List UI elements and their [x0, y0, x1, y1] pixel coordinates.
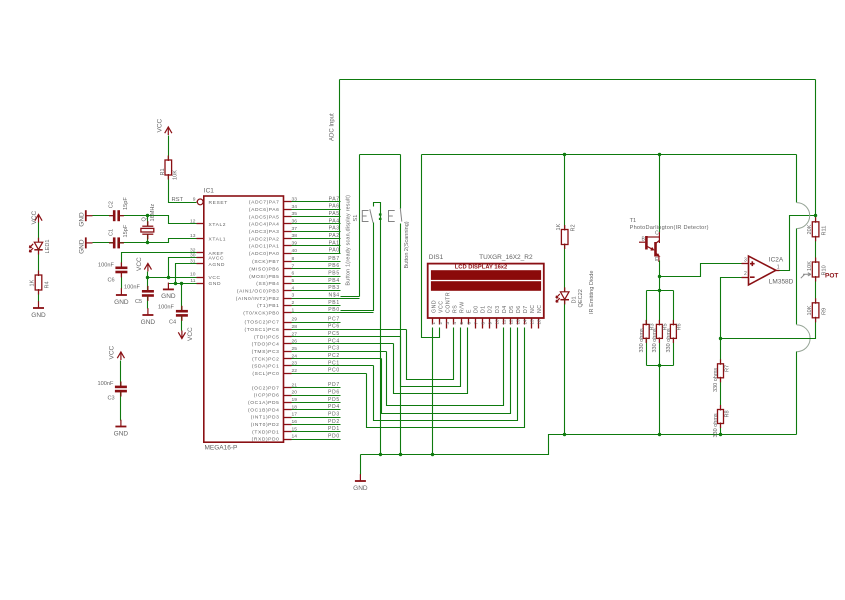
svg-text:(ADC6)PA6: (ADC6)PA6 [249, 207, 280, 213]
resistor R10 potentiometer top pin [815, 258, 817, 264]
wire net PB0 [292, 312, 374, 314]
wire R9 to feedback [721, 318, 816, 339]
svg-text:20: 20 [292, 390, 298, 396]
svg-text:Button 2(Scanning): Button 2(Scanning) [404, 221, 410, 268]
pin stub PD7 pin 21 [284, 387, 292, 389]
svg-text:PB1: PB1 [328, 300, 340, 306]
svg-text:T1: T1 [630, 218, 637, 224]
capacitor C2 right pin [119, 215, 124, 217]
junction parallel top [658, 289, 661, 292]
svg-text:10: 10 [190, 272, 196, 278]
pin stub PD3 pin 17 [284, 417, 292, 419]
wire C6 to GND [121, 273, 123, 289]
wire GND row to pin11 [169, 283, 197, 285]
D1 top pin [564, 287, 566, 291]
pin stub PA5 pin 35 [284, 216, 292, 218]
wire net PD2 [292, 424, 341, 426]
svg-text:1K: 1K [30, 279, 36, 286]
svg-text:16MHz: 16MHz [150, 204, 156, 222]
wire ADC input rail [340, 79, 816, 81]
wire R6 top [673, 291, 675, 325]
wire AREF to C6 [122, 253, 197, 268]
svg-text:PB7: PB7 [328, 256, 340, 262]
resistor R6 bottom pin [672, 337, 674, 343]
pin stub LCD pin 2 VCC [439, 319, 441, 325]
resistor R9 top pin [815, 298, 817, 304]
svg-text:QEC22: QEC22 [578, 289, 584, 307]
wire C3 to GND [120, 392, 122, 421]
resistor R2 bottom pin [564, 244, 566, 250]
svg-text:D4: D4 [502, 305, 508, 313]
svg-text:(OC1A)PD5: (OC1A)PD5 [248, 400, 280, 406]
svg-text:9: 9 [193, 197, 196, 203]
svg-text:R9: R9 [822, 308, 828, 315]
svg-text:D7: D7 [523, 305, 529, 313]
svg-text:11: 11 [190, 278, 195, 284]
svg-text:10: 10 [494, 319, 499, 325]
pin stub PB0 pin 1 [284, 312, 292, 314]
svg-text:(TOSC2)PC7: (TOSC2)PC7 [245, 320, 280, 326]
pin stub opamp minus [742, 277, 749, 279]
svg-text:19: 19 [292, 397, 298, 403]
capacitor C3 top pin [120, 382, 122, 387]
resistor R10 potentiometer bottom pin [815, 276, 817, 282]
svg-text:C4: C4 [169, 320, 176, 326]
wire net PB1 [292, 305, 341, 307]
wire minus input down [721, 278, 742, 364]
wire crystal bottom stub [147, 235, 149, 243]
capacitor C5 [142, 291, 154, 295]
wire D1 to bus [564, 300, 566, 435]
junction feedback [719, 337, 722, 340]
svg-text:R2: R2 [571, 224, 577, 231]
wire down to C4 [181, 284, 183, 312]
wire parallel bottom [647, 365, 674, 367]
pin stub LCD pin 7 D0 [475, 319, 477, 329]
svg-text:15: 15 [530, 319, 535, 325]
svg-text:D1: D1 [572, 296, 578, 303]
svg-text:LCD DISPLAY 16x2: LCD DISPLAY 16x2 [455, 265, 508, 271]
crystal Q top pin [147, 221, 149, 226]
wire net PB3 [292, 290, 341, 292]
wire net PB4 [292, 283, 341, 285]
capacitor C2 left pin [109, 215, 114, 217]
pin stub PD2 pin 16 [284, 424, 292, 426]
ground at C1 [86, 237, 93, 248]
svg-text:9: 9 [487, 322, 492, 325]
svg-text:R8: R8 [725, 410, 731, 417]
supply VCC arrow at pin10 [144, 263, 151, 271]
wire net PB6 [292, 268, 341, 270]
pin stub PC3 pin 25 [284, 351, 292, 353]
pin stub PB3 pin 4 [284, 290, 292, 292]
svg-text:PhotoDarlington(IR Detector): PhotoDarlington(IR Detector) [630, 225, 709, 231]
svg-text:TUXGR_16X2_R2: TUXGR_16X2_R2 [479, 254, 533, 261]
wire LCD staircase via x=366.1 [367, 328, 525, 428]
svg-text:2: 2 [744, 271, 747, 277]
LED D1 QEC22 IR emitting diode [556, 292, 569, 302]
svg-text:(ADC3)PA3: (ADC3)PA3 [249, 229, 280, 235]
wire C2 to XTAL2 [119, 216, 197, 224]
svg-text:N$4: N$4 [329, 292, 340, 298]
wire down to C5 [147, 278, 149, 292]
resistor R5 [656, 324, 662, 338]
pin stub PB6 pin 7 [284, 268, 292, 270]
wire VCC rail to T1 collector [659, 155, 661, 233]
svg-text:(AIN1/OC0)PB3: (AIN1/OC0)PB3 [237, 288, 280, 294]
pin stub PA2 pin 38 [284, 238, 292, 240]
wire S2 top from VCC rail [400, 155, 402, 209]
resistor R4 top pin [38, 271, 40, 277]
crystal Q 16MHz [141, 226, 154, 234]
svg-text:(INT1)PD3: (INT1)PD3 [251, 415, 280, 421]
wire R11 to R10 [815, 237, 817, 263]
junction R8 on bus [719, 433, 722, 436]
svg-text:12: 12 [190, 219, 196, 225]
svg-text:4: 4 [292, 285, 295, 291]
svg-text:(TDO)PC4: (TDO)PC4 [252, 342, 280, 348]
resistor R1 [165, 160, 172, 175]
svg-text:(T0/XCK)PB0: (T0/XCK)PB0 [243, 310, 279, 316]
wire GND to C2 [93, 215, 115, 217]
wire VCC to LED1 [38, 223, 40, 243]
svg-text:Button 1(ready scan,display re: Button 1(ready scan,display result) [346, 195, 352, 286]
capacitor C1 right pin [119, 242, 124, 244]
pin stub LCD pin 3 CONTR [446, 319, 448, 329]
pin stub PD6 pin 20 [284, 395, 292, 397]
wire emitter junction to plus input [660, 264, 742, 277]
svg-text:6: 6 [292, 271, 295, 277]
svg-text:C3: C3 [108, 396, 115, 402]
pin stub PD4 pin 18 [284, 409, 292, 411]
wire net PD5 [292, 402, 341, 404]
svg-text:GND: GND [141, 319, 156, 326]
svg-text:(TCK)PC2: (TCK)PC2 [252, 356, 279, 362]
svg-text:4: 4 [452, 322, 457, 325]
svg-text:VCC: VCC [187, 327, 194, 341]
pin stub LCD pin 5 R/W [461, 319, 463, 325]
svg-text:38: 38 [292, 233, 298, 239]
wire net PC3 [292, 351, 387, 353]
svg-text:R6: R6 [677, 323, 683, 330]
wire net PC0 [292, 373, 367, 375]
svg-text:100nF: 100nF [98, 262, 114, 268]
resistor R9 bottom pin [815, 317, 817, 323]
capacitor C3 [115, 387, 127, 391]
resistor R3 bottom pin [645, 337, 647, 343]
svg-text:1: 1 [777, 264, 780, 270]
pin stub LCD pin 4 RS [453, 319, 455, 325]
svg-text:XTAL2: XTAL2 [209, 222, 227, 228]
pin stub PC4 pin 26 [284, 343, 292, 345]
ground at C2 [86, 210, 93, 221]
wire S1 to N$4 net [341, 296, 360, 298]
resistor R5 bottom pin [658, 337, 660, 343]
resistor R10 potentiometer [812, 262, 819, 277]
pin stub RESET pin 9 [197, 201, 198, 203]
op-amp IC2A LM358D [749, 256, 776, 285]
wire S1 lever to PB0 [341, 223, 374, 311]
svg-text:(ADC1)PA1: (ADC1)PA1 [249, 244, 280, 250]
svg-text:PD2: PD2 [328, 419, 340, 425]
svg-text:PA1: PA1 [329, 240, 340, 246]
svg-text:17: 17 [292, 412, 298, 418]
svg-text:PC5: PC5 [328, 331, 340, 337]
capacitor C4 bottom pin [181, 315, 183, 320]
svg-text:14: 14 [292, 434, 298, 440]
wire R7 to R8 [720, 378, 722, 410]
svg-text:2: 2 [438, 322, 443, 325]
svg-text:330 ohms: 330 ohms [666, 328, 672, 352]
resistor R5 top pin [658, 320, 660, 326]
svg-text:(SS)PB4: (SS)PB4 [256, 281, 279, 287]
svg-text:PA5: PA5 [329, 211, 340, 217]
svg-text:(MOSI)PB5: (MOSI)PB5 [249, 274, 279, 280]
svg-text:PC6: PC6 [328, 324, 340, 330]
op-amp n/a IC1 body MEGA16-P [204, 196, 284, 442]
svg-text:23: 23 [292, 361, 298, 367]
svg-text:VCC: VCC [31, 210, 38, 224]
wire net PA0 [292, 253, 341, 255]
svg-text:R4: R4 [45, 281, 51, 288]
svg-text:GND: GND [432, 300, 438, 313]
svg-text:10K: 10K [807, 261, 813, 271]
svg-text:PD6: PD6 [328, 389, 340, 395]
svg-text:GND: GND [209, 281, 222, 287]
wire hop arc 2 [797, 325, 810, 352]
wire net PD7 [292, 387, 341, 389]
junction output R11 top rail [814, 214, 817, 217]
ground at pin11 row [163, 283, 174, 290]
transistor T1 photodarlington [639, 232, 659, 262]
svg-text:(ICP)PD6: (ICP)PD6 [254, 393, 280, 399]
svg-text:5: 5 [292, 278, 295, 284]
wire net PC2 [292, 358, 382, 360]
svg-text:(ADC5)PA5: (ADC5)PA5 [249, 214, 280, 220]
pin stub PA3 pin 37 [284, 231, 292, 233]
pin stub PA0 pin 40 [284, 253, 292, 255]
resistor R9 [812, 303, 819, 318]
wire LCD staircase via x=393.5 [394, 328, 468, 394]
ground below C6 [116, 288, 127, 295]
svg-text:C6: C6 [108, 278, 115, 284]
pin stub N$4 pin 3 [284, 298, 292, 300]
pin stub PC7 pin 29 [284, 322, 292, 324]
wire LCD staircase via x=400.9 [401, 328, 461, 387]
svg-text:VCC: VCC [136, 257, 143, 271]
svg-text:15pF: 15pF [123, 197, 129, 210]
pin stub XTAL1 pin 13 [197, 238, 204, 240]
svg-text:VCC: VCC [439, 300, 445, 313]
svg-text:15: 15 [292, 426, 298, 432]
wire net PD6 [292, 395, 341, 397]
resistor R3 top pin [645, 320, 647, 326]
capacitor C4 top pin [181, 306, 183, 311]
pin stub AVCC pin 30 [197, 257, 204, 259]
wire LCD staircase via x=386.3 [387, 328, 504, 406]
svg-text:R1: R1 [160, 168, 166, 175]
wire R5 bottom [659, 339, 661, 366]
svg-text:C: C [655, 231, 659, 237]
capacitor C1 [114, 237, 119, 248]
svg-text:(ADC7)PA7: (ADC7)PA7 [249, 200, 280, 206]
ground below C5 [142, 308, 153, 315]
pin stub LCD pin 9 D2 [489, 319, 491, 329]
junction crystal bottom [146, 241, 149, 244]
wire ADC input drop to PA0 [339, 80, 341, 254]
resistor R6 [670, 324, 676, 338]
svg-text:POT: POT [825, 273, 838, 280]
wire net PC1 [292, 365, 374, 367]
pin stub PC0 pin 22 [284, 373, 292, 375]
capacitor C6 top pin [120, 262, 122, 267]
svg-text:27: 27 [292, 331, 298, 337]
junction emitter to opamp [658, 275, 661, 278]
resistor R7 [718, 364, 724, 378]
wire net PD4 [292, 409, 341, 411]
wire net PA3 [292, 231, 341, 233]
svg-text:(OC1B)PD4: (OC1B)PD4 [248, 407, 280, 413]
resistor R4 [35, 275, 42, 290]
resistor R6 top pin [672, 320, 674, 326]
wire GND bus lower [361, 435, 797, 455]
pin stub GND pin 11 [197, 283, 204, 285]
pin stub AGND pin 31 [197, 263, 204, 265]
wire R10 to R9 [815, 278, 817, 303]
LED D1 LED1 [29, 242, 42, 252]
capacitor C5 bottom pin [147, 296, 149, 301]
wire R5 through [659, 291, 661, 325]
pin stub PB7 pin 8 [284, 261, 292, 263]
capacitor C3 bottom pin [120, 391, 122, 396]
svg-text:15pF: 15pF [123, 224, 129, 237]
resistor R4 bottom pin [38, 289, 40, 295]
svg-text:(AIN0/INT2)PB2: (AIN0/INT2)PB2 [236, 296, 280, 302]
wire S2 lever to bus [400, 224, 402, 455]
svg-text:40: 40 [292, 248, 298, 254]
wire LCD staircase via x=381.1 [382, 328, 511, 414]
pin stub PC6 pin 28 [284, 329, 292, 331]
wire net PA5 [292, 216, 341, 218]
svg-text:PC1: PC1 [328, 360, 340, 366]
svg-text:(ADC2)PA2: (ADC2)PA2 [249, 236, 280, 242]
pin stub LCD pin 15 NC [531, 319, 533, 329]
pin stub XTAL2 pin 12 [197, 223, 204, 225]
capacitor C2 [114, 210, 119, 221]
junction T1 on VCC rail [658, 153, 661, 156]
svg-text:37: 37 [292, 226, 298, 232]
svg-text:S1: S1 [353, 215, 359, 222]
svg-text:8: 8 [480, 322, 485, 325]
pin stub LCD pin 16 NC [538, 319, 540, 329]
svg-text:PA0: PA0 [329, 248, 340, 254]
crystal Q bottom pin [147, 235, 149, 240]
junction LCD pin1 on bus [431, 453, 434, 456]
junction crystal top [146, 214, 149, 217]
D1 bottom pin [564, 300, 566, 305]
svg-text:GND: GND [114, 430, 129, 437]
pin stub PD1 pin 15 [284, 431, 292, 433]
svg-text:(SDA)PC1: (SDA)PC1 [252, 364, 280, 370]
svg-text:PD3: PD3 [328, 411, 340, 417]
svg-text:PB0: PB0 [328, 307, 340, 313]
svg-text:PD7: PD7 [328, 382, 340, 388]
wire VCC to C3 [120, 361, 122, 387]
svg-text:D2: D2 [488, 305, 494, 313]
capacitor C1 left pin [109, 242, 114, 244]
svg-text:7: 7 [473, 322, 478, 325]
svg-text:RESET: RESET [209, 200, 228, 206]
wire VCC to R1 [168, 136, 170, 161]
svg-text:VCC: VCC [209, 275, 221, 281]
svg-text:RST: RST [172, 197, 184, 203]
svg-text:1K: 1K [556, 223, 562, 230]
svg-text:IC2A: IC2A [769, 257, 784, 264]
pin stub PA4 pin 36 [284, 223, 292, 225]
svg-text:100nF: 100nF [124, 285, 140, 291]
pin stub LCD pin 8 D1 [482, 319, 484, 329]
svg-text:C2: C2 [109, 201, 115, 208]
supply VCC arrow top-left [35, 215, 42, 223]
wire net PC7 [292, 322, 341, 324]
pin stub opamp out [776, 270, 780, 272]
switch S1 [362, 209, 373, 222]
svg-text:PA2: PA2 [329, 233, 340, 239]
junction AVCC on VCC row [167, 276, 170, 279]
svg-text:22: 22 [292, 368, 298, 374]
svg-text:33: 33 [292, 197, 298, 203]
svg-text:26: 26 [292, 339, 298, 345]
resistor R1 bottom pin [167, 174, 169, 180]
svg-text:20K: 20K [807, 224, 813, 234]
svg-text:28: 28 [292, 324, 298, 330]
svg-text:21: 21 [292, 382, 298, 388]
capacitor C6 bottom pin [120, 272, 122, 277]
svg-text:3: 3 [292, 293, 295, 299]
svg-text:PA7: PA7 [329, 196, 340, 202]
svg-text:(INT0)PD2: (INT0)PD2 [251, 422, 280, 428]
svg-text:R11: R11 [822, 226, 828, 236]
svg-text:AVCC: AVCC [209, 256, 225, 262]
resistor R3 [643, 324, 649, 338]
wire VCC rail [422, 154, 797, 156]
svg-text:10K: 10K [807, 305, 813, 315]
wire net PD3 [292, 417, 341, 419]
svg-text:PB4: PB4 [328, 278, 340, 284]
resistor R11 bottom pin [815, 236, 817, 242]
svg-text:13: 13 [515, 319, 520, 325]
svg-text:DIS1: DIS1 [429, 254, 444, 261]
wire net PA4 [292, 223, 341, 225]
wire net PB5 [292, 276, 341, 278]
svg-text:PC3: PC3 [328, 346, 340, 352]
pin stub LCD pin 11 D4 [503, 319, 505, 325]
svg-text:CONTR: CONTR [446, 292, 452, 313]
svg-text:VCC: VCC [157, 118, 164, 132]
wire AGND drop [176, 264, 197, 284]
wire right net middle [796, 229, 798, 325]
wire C5 to GND [147, 296, 149, 309]
pin stub opamp plus [742, 263, 749, 265]
switch S2 [389, 208, 402, 221]
svg-text:NC: NC [537, 304, 543, 313]
svg-text:PD0: PD0 [328, 433, 340, 439]
svg-text:330 ohms: 330 ohms [639, 328, 645, 352]
wire opamp output up [780, 216, 816, 271]
wire button top rail [360, 154, 401, 156]
ground at bus [355, 474, 366, 481]
svg-text:PD1: PD1 [328, 426, 340, 432]
